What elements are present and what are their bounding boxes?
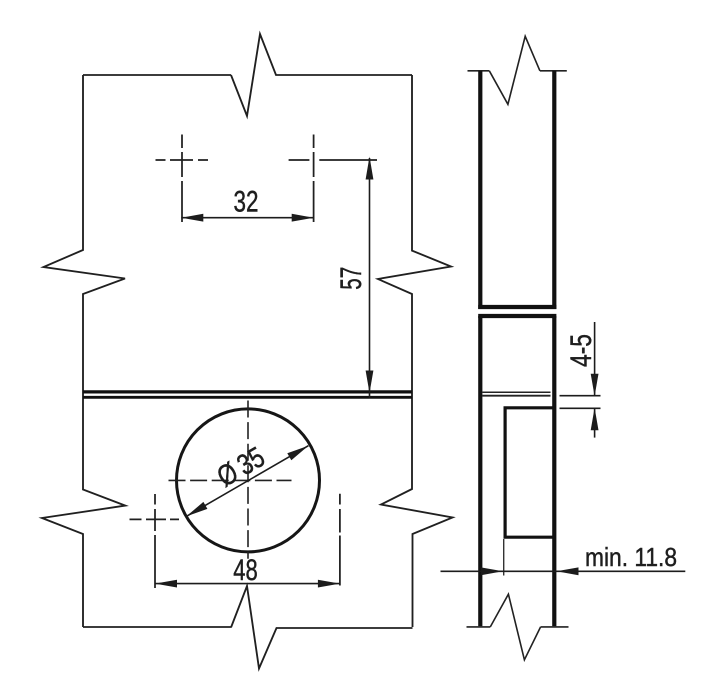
- svg-text:32: 32: [234, 186, 259, 219]
- svg-text:min. 11.8: min. 11.8: [585, 542, 677, 572]
- svg-text:57: 57: [335, 267, 368, 290]
- svg-text:48: 48: [233, 554, 258, 587]
- svg-text:4-5: 4-5: [565, 334, 598, 367]
